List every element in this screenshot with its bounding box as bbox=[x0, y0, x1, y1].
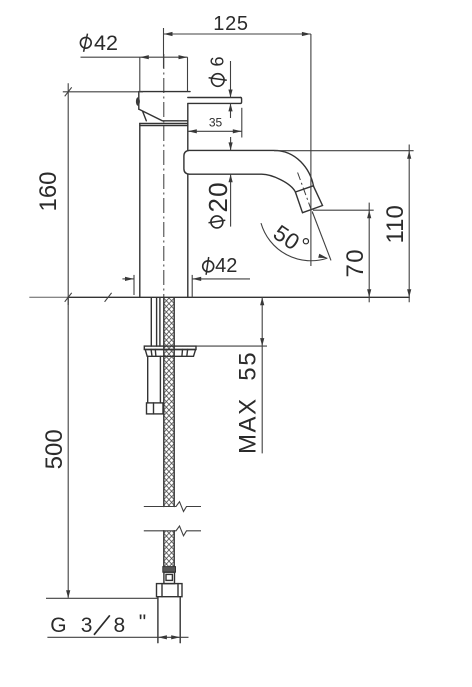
dimension 160 bbox=[35, 83, 143, 305]
lever handle left edge bbox=[138, 92, 140, 110]
flexible hose upper section bbox=[164, 298, 174, 507]
threaded tube G3/8 bbox=[158, 597, 180, 643]
dimension 70 bbox=[342, 203, 371, 303]
dimension diameter 20 (spout) bbox=[203, 137, 233, 228]
svg-text:MAX 55: MAX 55 bbox=[235, 351, 262, 454]
dimension base diameter 42 bbox=[122, 255, 250, 298]
svg-text:": " bbox=[139, 611, 146, 634]
svg-text:125: 125 bbox=[213, 13, 248, 35]
dimension 35 bbox=[188, 108, 242, 138]
stud end block bbox=[147, 403, 164, 414]
extension line from aerator to 70 dim bbox=[313, 209, 374, 211]
dimension top diameter 42 bbox=[80, 31, 187, 92]
dimension 110 bbox=[382, 145, 412, 303]
body centerline bbox=[163, 54, 165, 297]
label G 3/8 inch bbox=[50, 611, 146, 637]
lever wedge line bbox=[143, 111, 147, 121]
mounting washer plate bbox=[144, 346, 196, 349]
lever rod bottom edge bbox=[188, 102, 241, 104]
dimension 125 bbox=[164, 13, 311, 68]
dimension 50 degrees arc bbox=[261, 220, 327, 261]
lever handle angled underside bbox=[139, 109, 188, 121]
lever rod top edge bbox=[188, 97, 241, 99]
body collar seam bbox=[140, 125, 188, 127]
aerator axis extension bbox=[312, 212, 331, 261]
spout outer contour bbox=[190, 150, 314, 186]
lever handle tip knob bbox=[136, 97, 140, 106]
oblique tick on deck bbox=[105, 293, 112, 302]
svg-text:35: 35 bbox=[209, 116, 223, 130]
fitting neck bbox=[164, 572, 175, 583]
svg-text:8: 8 bbox=[114, 614, 126, 637]
lever rod end cap bbox=[241, 98, 242, 104]
oblique tick on deck at dim line bbox=[65, 293, 72, 302]
dimension diameter 6 (lever rod) bbox=[207, 56, 232, 118]
flexible hose lower section bbox=[164, 531, 174, 567]
faucet body left edge bbox=[139, 124, 141, 298]
spout rear cap bbox=[184, 150, 190, 174]
break line upper bbox=[144, 502, 201, 512]
faucet body right edge upper bbox=[187, 104, 189, 150]
vertical reference ray (shared with 125 extension) bbox=[310, 34, 312, 266]
svg-text:G: G bbox=[50, 614, 66, 637]
svg-text:500: 500 bbox=[41, 429, 68, 469]
extension line 500 end bbox=[46, 597, 158, 599]
faucet body right edge lower bbox=[187, 174, 189, 297]
break line lower bbox=[144, 526, 201, 536]
svg-text:20: 20 bbox=[203, 181, 233, 212]
svg-text:70: 70 bbox=[342, 248, 369, 278]
dimension G 3/8 tube bbox=[47, 635, 188, 639]
threaded stud below washer bbox=[148, 356, 161, 403]
counter / deck line bbox=[29, 296, 409, 298]
fitting nut bbox=[157, 584, 183, 597]
svg-text:42: 42 bbox=[215, 255, 237, 277]
dimension 500 bbox=[41, 297, 71, 598]
spout inner contour bbox=[190, 174, 295, 192]
svg-text:160: 160 bbox=[35, 171, 62, 211]
svg-text:110: 110 bbox=[382, 205, 409, 243]
svg-text:6: 6 bbox=[207, 56, 227, 66]
svg-text:42: 42 bbox=[94, 31, 118, 55]
aerator bbox=[295, 186, 322, 213]
hose crimp ferrule bbox=[163, 567, 176, 573]
svg-text:3: 3 bbox=[81, 614, 93, 637]
supply stud above mounting washer bbox=[151, 298, 160, 346]
mounting nut skirt bbox=[145, 350, 195, 357]
dimension MAX 55 bbox=[196, 297, 267, 454]
aerator axis centerline bbox=[298, 173, 313, 214]
faucet top cap line bbox=[140, 91, 190, 93]
handle base seam bbox=[140, 123, 188, 125]
extension line spout top to 110 dim bbox=[274, 150, 414, 152]
